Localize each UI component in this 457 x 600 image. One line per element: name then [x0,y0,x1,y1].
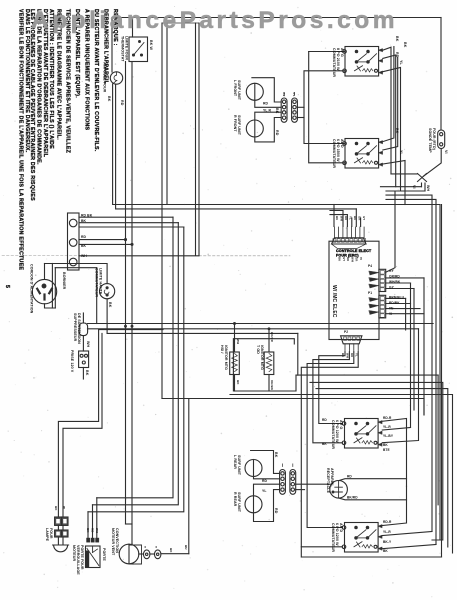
svg-text:5: 5 [4,285,10,288]
svg-text:BK: BK [403,42,407,48]
svg-text:BK: BK [274,452,278,458]
svg-text:BK: BK [383,549,388,553]
svg-text:FOUR: FOUR [49,528,53,539]
svg-text:RD BK: RD BK [81,214,93,218]
svg-text:CORDON D’ALIMENTATION: CORDON D’ALIMENTATION [30,264,34,314]
svg-text:L FRONT: L FRONT [233,80,237,97]
svg-text:VERIFIER LE BON FONCTIONNEMENT: VERIFIER LE BON FONCTIONNEMENT DE L’APPA… [18,9,24,270]
svg-text:RD-R: RD-R [383,520,392,524]
svg-text:DANS LE FONCTIONNEMENT ET ITRE: DANS LE FONCTIONNEMENT ET ITRE DANGEREUX… [24,9,30,153]
svg-text:AMPOULE FOUR: AMPOULE FOUR [103,62,107,93]
svg-text:SURF UNIT: SURF UNIT [237,115,241,136]
svg-text:BK: BK [395,128,399,134]
svg-text:BK: BK [275,108,279,114]
svg-text:BK: BK [85,370,89,376]
svg-text:PRISE 120 V: PRISE 120 V [70,350,74,373]
svg-text:BK: BK [395,36,399,42]
svg-text:LIMITE HAUTE: LIMITE HAUTE [99,268,103,295]
svg-text:BK: BK [108,302,112,308]
svg-text:BK: BK [107,96,111,102]
svg-text:BK: BK [338,257,342,261]
svg-text:RD: RD [81,235,87,239]
svg-text:WH: WH [236,339,240,344]
svg-text:RD: RD [350,353,354,357]
svg-text:VI: VI [389,312,392,316]
svg-text:COMMUTATEUR: COMMUTATEUR [331,523,335,552]
svg-text:WH: WH [346,353,350,358]
svg-text:TN: TN [389,307,394,311]
svg-text:YL: YL [399,60,403,65]
svg-text:MOTEUR VENT: MOTEUR VENT [111,528,115,556]
svg-text:OR: OR [355,257,359,261]
svg-text:SURF UNIT: SURF UNIT [237,455,241,476]
svg-text:LIMITE FOUR: LIMITE FOUR [125,36,129,60]
svg-text:OR/RD: OR/RD [389,275,400,279]
svg-text:P2: P2 [344,330,348,334]
svg-text:BK: BK [322,442,327,446]
svg-text:P1: P1 [368,291,372,295]
svg-text:BK: BK [86,528,90,533]
svg-text:RECEPTACLE: RECEPTACLE [326,468,330,494]
svg-text:RD-R: RD-R [383,416,392,420]
svg-text:OR: OR [358,216,362,220]
svg-text:THERMOSTAT: THERMOSTAT [121,36,125,62]
svg-text:SURF UNIT: SURF UNIT [237,80,241,101]
svg-text:RD: RD [262,479,268,483]
svg-text:WH: WH [81,254,87,258]
svg-text:8 PO 2100 W: 8 PO 2100 W [336,48,340,71]
svg-text:P1: P1 [292,93,296,97]
svg-text:RD: RD [347,475,352,479]
svg-text:W: W [62,506,66,509]
svg-text:WH: WH [426,185,430,191]
svg-text:AR D: AR D [339,523,343,532]
svg-text:MOTEUR: MOTEUR [72,545,76,561]
svg-text:GY: GY [362,216,366,220]
svg-text:BORNIER: BORNIER [62,272,66,290]
svg-text:RD: RD [120,100,124,106]
svg-text:YL: YL [262,489,267,493]
svg-text:HSI /: HSI / [220,345,224,354]
svg-text:R REAR: R REAR [233,492,237,507]
svg-text:VI: VI [359,257,363,260]
svg-text:BTE: BTE [383,448,390,452]
svg-text:P4: P4 [368,264,372,268]
svg-text:RD: RD [322,418,327,422]
svg-text:RD/BK: RD/BK [389,301,400,305]
svg-text:BK/RD: BK/RD [270,332,274,343]
svg-text:SURF UNIT: SURF UNIT [237,492,241,513]
svg-text:BK: BK [341,353,345,357]
svg-text:VERROUILLAGE: VERROUILLAGE [76,545,80,575]
svg-text:SUPPRESSEUR: SUPPRESSEUR [73,313,77,342]
svg-text:AV D: AV D [340,139,344,148]
svg-text:WH: WH [86,341,90,347]
svg-text:BK W: BK W [149,40,153,50]
svg-text:YL: YL [399,150,403,155]
svg-text:AR G: AR G [339,420,343,429]
svg-text:RD: RD [91,528,95,533]
svg-text:RD: RD [344,216,348,220]
svg-text:IGNITOR MTG: IGNITOR MTG [224,345,228,370]
svg-text:Y: Y [154,546,158,548]
svg-text:YL: YL [349,216,353,220]
svg-text:FOUR (RTD): FOUR (RTD) [432,128,436,151]
svg-text:GY: GY [342,257,346,261]
svg-text:COMMUTATEUR: COMMUTATEUR [331,420,335,449]
svg-text:APPAREIL: APPAREIL [330,468,334,487]
svg-text:YL-R: YL-R [383,530,391,534]
svg-text:WH: WH [95,528,99,533]
svg-text:6 PO 1200 W: 6 PO 1200 W [335,420,339,443]
svg-text:BRN/BLU: BRN/BLU [389,296,405,300]
svg-text:DE SURTENSION: DE SURTENSION [77,313,81,344]
svg-text:6 PO 1500 W: 6 PO 1500 W [336,139,340,162]
svg-text:L REAR: L REAR [233,455,237,469]
svg-text:OR/BK: OR/BK [270,380,274,391]
svg-text:BK: BK [81,244,87,248]
svg-text:BU: BU [184,545,188,550]
svg-text:RD: RD [263,102,269,106]
svg-text:PORTE: PORTE [102,548,106,561]
svg-text:VI: VI [444,150,448,154]
svg-text:RD: RD [395,52,399,58]
svg-text:COMMUTATEUR: COMMUTATEUR [332,139,336,168]
svg-text:RD: RD [275,130,279,136]
svg-text:T OD: T OD [256,345,260,354]
svg-text:GY: GY [389,286,395,290]
svg-text:COMMUTATEUR: COMMUTATEUR [332,48,336,77]
svg-text:AV G: AV G [340,48,344,57]
svg-text:YL: YL [355,353,359,357]
svg-text:BK: BK [81,219,87,223]
svg-text:W/ /MC ELEC: W/ /MC ELEC [331,285,337,318]
svg-text:RD: RD [346,257,350,261]
svg-text:YL R: YL R [263,109,272,113]
svg-text:BK/RD: BK/RD [347,496,358,500]
svg-text:BK: BK [335,216,339,220]
svg-text:YL-BY: YL-BY [383,434,394,438]
svg-text:WH: WH [340,216,344,221]
svg-text:BK: BK [353,216,357,220]
svg-text:6 PO 1200 W: 6 PO 1200 W [335,523,339,546]
svg-text:BK: BK [169,548,173,553]
svg-text:YL-R: YL-R [383,425,391,429]
svg-text:BK-Y: BK-Y [383,540,392,544]
svg-text:SONDE TEMP: SONDE TEMP [428,128,432,153]
svg-text:Y: Y [143,546,147,548]
svg-text:COMMUTATEUR: COMMUTATEUR [95,268,99,297]
svg-text:BK: BK [236,380,240,385]
svg-text:IGNITOR MTG: IGNITOR MTG [260,345,264,370]
svg-text:R FRONT: R FRONT [233,115,237,132]
svg-text:BK: BK [54,506,58,511]
svg-text:CONTROLE ELECT: CONTROLE ELECT [336,249,372,253]
svg-text:WH/BK: WH/BK [389,280,401,284]
svg-text:PORTE FOUR: PORTE FOUR [80,545,84,570]
svg-text:CONVECTION: CONVECTION [115,528,119,553]
svg-text:P2: P2 [282,93,286,97]
svg-text:RD: RD [274,508,278,514]
svg-text:VI: VI [412,185,416,189]
svg-text:WH: WH [350,257,354,262]
svg-text:GY: GY [389,269,395,273]
svg-text:BK: BK [383,443,388,447]
